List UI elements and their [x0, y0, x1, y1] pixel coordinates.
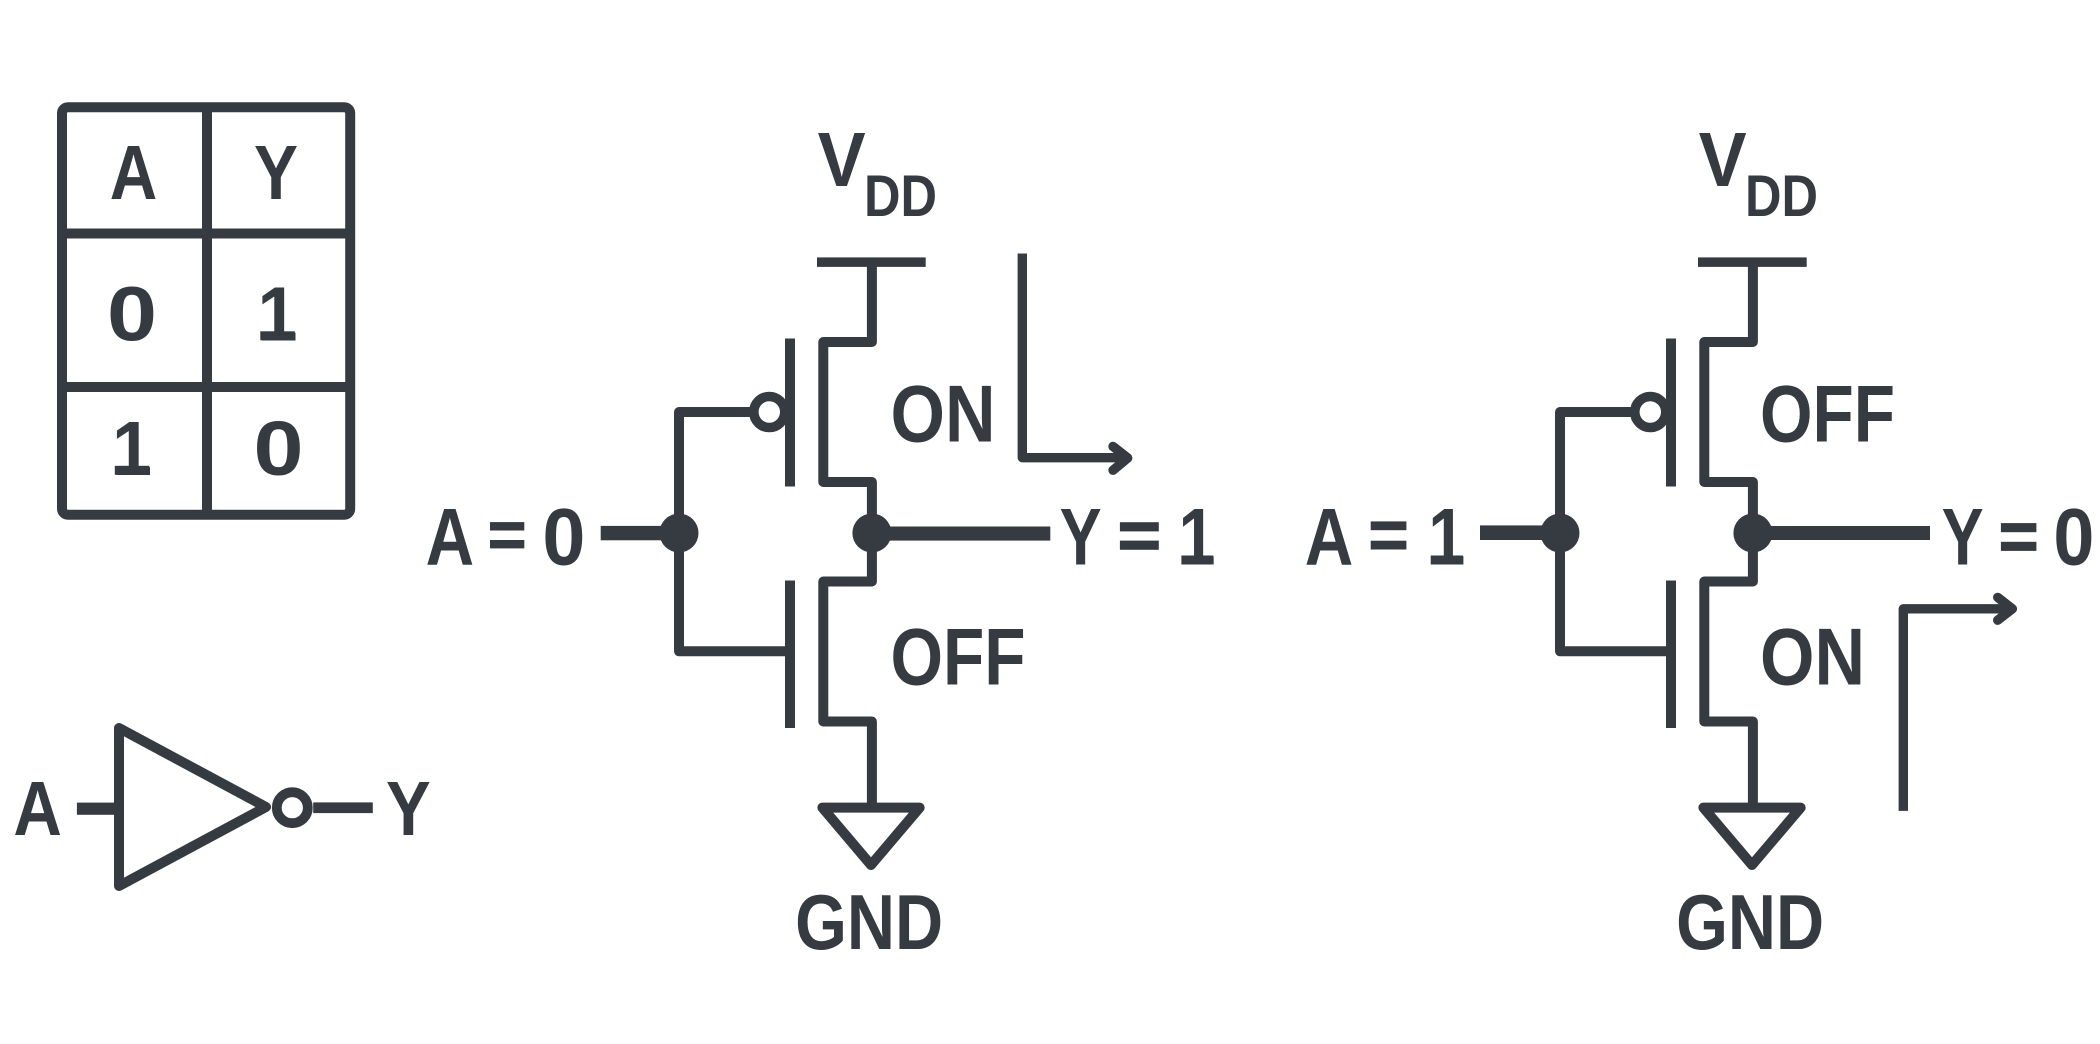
- svg-text:1: 1: [1179, 493, 1216, 583]
- svg-text:V: V: [1699, 117, 1747, 203]
- svg-text:V: V: [818, 117, 866, 203]
- svg-text:0: 0: [107, 271, 157, 357]
- svg-text:A: A: [110, 130, 158, 216]
- svg-text:Y: Y: [1942, 493, 1984, 583]
- svg-text:DD: DD: [864, 164, 937, 229]
- svg-text:DD: DD: [1745, 164, 1818, 229]
- svg-text:1: 1: [1428, 493, 1465, 583]
- svg-text:1: 1: [112, 406, 152, 492]
- svg-text:1: 1: [258, 271, 298, 357]
- svg-text:ON: ON: [891, 369, 996, 459]
- svg-text:OFF: OFF: [1760, 369, 1895, 459]
- svg-text:ON: ON: [1760, 612, 1865, 702]
- svg-text:Y: Y: [1060, 493, 1102, 583]
- svg-text:A: A: [426, 493, 475, 583]
- svg-text:0: 0: [2053, 493, 2094, 583]
- svg-text:GND: GND: [795, 878, 943, 966]
- svg-text:A: A: [1305, 493, 1354, 583]
- svg-text:GND: GND: [1676, 878, 1824, 966]
- svg-text:Y: Y: [254, 130, 298, 216]
- svg-text:OFF: OFF: [891, 612, 1026, 702]
- svg-text:A: A: [13, 766, 62, 852]
- svg-text:Y: Y: [386, 766, 431, 852]
- svg-text:0: 0: [254, 406, 304, 492]
- svg-text:0: 0: [542, 493, 585, 583]
